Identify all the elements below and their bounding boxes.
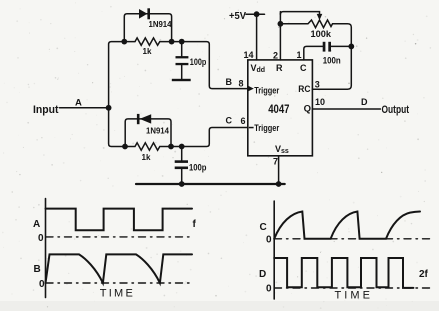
svg-text:R: R bbox=[276, 63, 283, 73]
svg-text:100p: 100p bbox=[189, 163, 207, 174]
svg-text:D: D bbox=[361, 97, 368, 107]
svg-text:2f: 2f bbox=[419, 269, 429, 280]
svg-text:+5V: +5V bbox=[229, 11, 246, 22]
svg-text:100p: 100p bbox=[190, 57, 207, 68]
svg-text:Output: Output bbox=[382, 104, 410, 116]
svg-text:A: A bbox=[33, 219, 40, 230]
svg-text:1: 1 bbox=[297, 50, 302, 60]
svg-text:Input: Input bbox=[33, 104, 59, 116]
svg-text:TIME: TIME bbox=[100, 288, 133, 300]
svg-text:6: 6 bbox=[241, 116, 246, 126]
svg-text:14: 14 bbox=[244, 50, 254, 60]
svg-text:100n: 100n bbox=[323, 56, 341, 67]
svg-text:Trigger: Trigger bbox=[254, 123, 279, 134]
svg-text:Q: Q bbox=[304, 104, 311, 115]
svg-text:0: 0 bbox=[266, 235, 272, 246]
svg-text:8: 8 bbox=[239, 79, 244, 89]
svg-text:1k: 1k bbox=[142, 152, 151, 162]
svg-text:D: D bbox=[259, 269, 266, 280]
svg-text:1N914: 1N914 bbox=[149, 19, 172, 29]
svg-text:B: B bbox=[226, 77, 233, 87]
svg-text:A: A bbox=[75, 98, 82, 109]
svg-text:2: 2 bbox=[273, 51, 278, 61]
svg-text:dd: dd bbox=[257, 67, 266, 74]
svg-text:1N914: 1N914 bbox=[146, 126, 169, 136]
svg-text:C: C bbox=[226, 116, 233, 126]
svg-text:4047: 4047 bbox=[268, 104, 289, 116]
svg-text:0: 0 bbox=[38, 233, 44, 244]
svg-text:B: B bbox=[34, 264, 41, 275]
svg-text:C: C bbox=[300, 63, 307, 73]
svg-text:TIME: TIME bbox=[335, 290, 371, 302]
svg-text:RC: RC bbox=[298, 84, 310, 95]
svg-text:Trigger: Trigger bbox=[254, 86, 279, 97]
svg-text:C: C bbox=[260, 222, 267, 233]
svg-text:10: 10 bbox=[315, 97, 325, 107]
svg-text:ss: ss bbox=[281, 148, 289, 155]
svg-text:100k: 100k bbox=[311, 29, 332, 40]
svg-text:0: 0 bbox=[266, 284, 272, 295]
svg-text:7: 7 bbox=[273, 157, 278, 167]
svg-text:1k: 1k bbox=[143, 46, 152, 56]
svg-text:0: 0 bbox=[39, 279, 45, 290]
svg-text:3: 3 bbox=[315, 80, 320, 90]
